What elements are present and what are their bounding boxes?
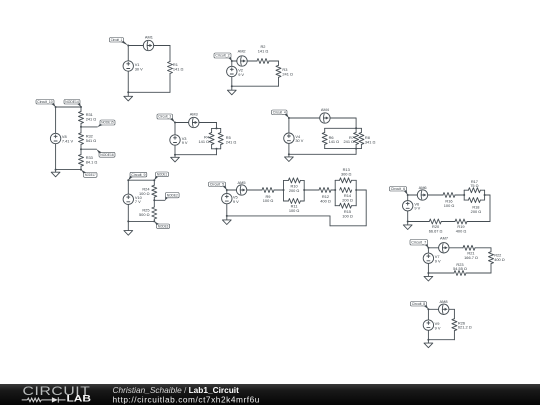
svg-text:NODE3: NODE3 [158, 224, 169, 228]
svg-text:AM4: AM4 [321, 107, 330, 112]
svg-text:Circuit_10: Circuit_10 [37, 100, 53, 104]
svg-text:AM1: AM1 [145, 35, 153, 40]
svg-text:AM6: AM6 [419, 185, 427, 190]
svg-text:NODE1: NODE1 [157, 173, 167, 177]
svg-text:http://circuitlab.com/ct7xh2k4: http://circuitlab.com/ct7xh2k4mrf6u [113, 394, 260, 404]
svg-text:AM2: AM2 [238, 49, 246, 54]
svg-text:NODE2: NODE2 [167, 193, 178, 197]
svg-text:NODE14: NODE14 [65, 100, 79, 104]
svg-text:AM5: AM5 [238, 180, 246, 185]
svg-text:Circuit_3: Circuit_3 [158, 115, 171, 119]
svg-text:R1775 Ω: R1775 Ω [470, 179, 478, 188]
svg-text:AM7: AM7 [440, 236, 448, 241]
svg-text:LAB: LAB [67, 394, 92, 404]
svg-text:NODE15: NODE15 [101, 121, 114, 125]
svg-text:AM3: AM3 [190, 112, 198, 117]
svg-text:AM8: AM8 [440, 299, 448, 304]
svg-text:NODE17: NODE17 [85, 173, 96, 177]
svg-text:Circuit_9: Circuit_9 [131, 173, 145, 177]
svg-text:NODE16: NODE16 [100, 153, 114, 157]
svg-text:Circuit_5: Circuit_5 [210, 182, 225, 186]
svg-text:Circuit_2: Circuit_2 [215, 54, 230, 58]
svg-text:Circuit_1: Circuit_1 [111, 38, 123, 42]
svg-text:Circuit_8: Circuit_8 [412, 302, 426, 306]
svg-text:Circuit_6: Circuit_6 [391, 187, 406, 191]
svg-text:Circuit_7: Circuit_7 [411, 240, 426, 244]
svg-text:Circuit_4: Circuit_4 [273, 110, 286, 114]
